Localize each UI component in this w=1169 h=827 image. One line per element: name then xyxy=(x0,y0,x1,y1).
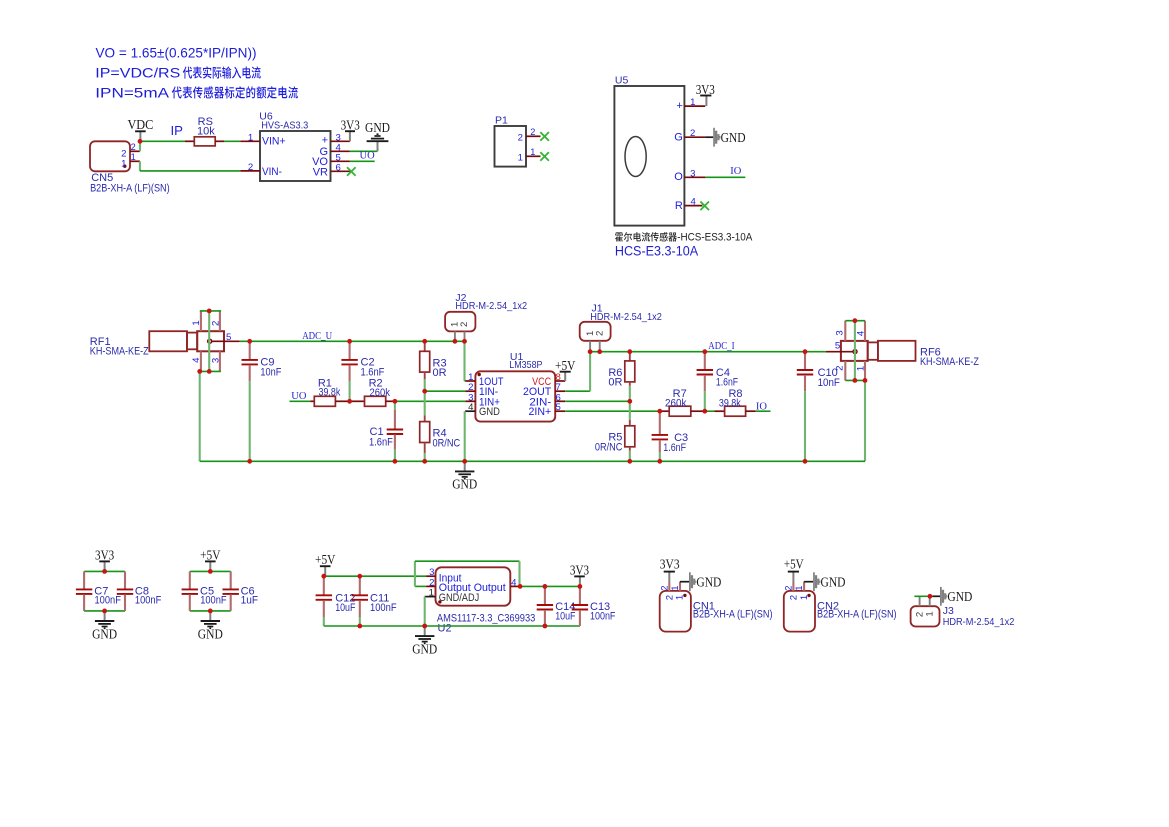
svg-text:GND: GND xyxy=(365,120,390,135)
wire U5 G to GND flag xyxy=(705,136,713,138)
svg-text:4: 4 xyxy=(691,197,697,208)
wire RF1 center vertical xyxy=(208,311,210,372)
resistor R7 260k xyxy=(660,388,705,416)
junction C9 top xyxy=(247,339,252,344)
junction RF1 top xyxy=(207,309,212,314)
capacitor C9 xyxy=(242,341,258,381)
wire RF6 bottom link xyxy=(845,379,865,381)
capacitor C14 xyxy=(537,586,553,626)
svg-text:LM358P: LM358P xyxy=(509,359,542,371)
svg-text:100nF: 100nF xyxy=(135,595,162,607)
svg-text:10nF: 10nF xyxy=(818,377,841,389)
svg-text:2: 2 xyxy=(659,585,669,590)
junction RF6 bottom center xyxy=(853,378,858,383)
resistor R1 39.8k xyxy=(310,377,349,406)
svg-text:GND: GND xyxy=(479,406,500,418)
svg-text:1: 1 xyxy=(429,588,434,599)
svg-text:2: 2 xyxy=(248,162,253,173)
svg-text:IP=VDC/RS: IP=VDC/RS xyxy=(95,66,180,81)
wire node down to R5 xyxy=(629,401,631,420)
junction J2 pin2 xyxy=(462,339,467,344)
junction J1 pin1 xyxy=(588,349,593,354)
capacitors C7 C8 with 3V3 and GND xyxy=(76,547,162,641)
resistor R4 0R/NC xyxy=(420,415,461,453)
svg-text:3V3: 3V3 xyxy=(570,562,590,577)
wire U1 2OUT to J1 xyxy=(565,352,590,392)
label C1 1.6nF xyxy=(369,426,393,449)
wire RF1 down to ground rail xyxy=(199,371,201,461)
junction R5 bottom xyxy=(627,459,632,464)
svg-text:VDC: VDC xyxy=(127,117,153,132)
wire U1 2IN+ row xyxy=(565,410,660,412)
wire regulator bottom rail xyxy=(324,625,580,627)
svg-text:4: 4 xyxy=(511,577,517,588)
resistor R3 0R xyxy=(420,341,447,379)
junction bottom of cap pair at 210.3 xyxy=(208,609,213,614)
junction C11 bottom xyxy=(357,624,362,629)
header J2 HDR-M-2.54_1x2 xyxy=(445,292,527,341)
svg-text:3V3: 3V3 xyxy=(341,118,361,133)
svg-text:GND: GND xyxy=(412,641,437,656)
resistor R2 260k xyxy=(350,378,395,407)
ground GND below U2 xyxy=(412,626,437,656)
svg-text:IO: IO xyxy=(756,401,767,412)
svg-text:2: 2 xyxy=(518,132,523,143)
svg-text:R: R xyxy=(675,200,683,212)
wire U2 out to 3V3 node xyxy=(520,585,580,587)
junction C4 top xyxy=(702,349,707,354)
junction U2 pin4 xyxy=(518,584,523,589)
connector CN2 with +5V and GND xyxy=(784,557,897,632)
svg-text:VO = 1.65±(0.625*IP/IPN)): VO = 1.65±(0.625*IP/IPN)) xyxy=(96,46,257,61)
junction R6 top xyxy=(627,349,632,354)
junction C12 top xyxy=(321,574,326,579)
svg-text:HCS-E3.3-10A: HCS-E3.3-10A xyxy=(615,243,699,259)
power flag +5V at U1 VCC xyxy=(555,358,576,381)
svg-text:ADC_I: ADC_I xyxy=(708,340,735,352)
capacitor C2 xyxy=(341,341,357,381)
svg-text:GND: GND xyxy=(452,477,477,492)
svg-text:J3: J3 xyxy=(943,605,954,617)
no-connect X at U5 pin4 xyxy=(700,202,709,211)
wire U6 G to GND xyxy=(350,150,378,152)
svg-text:O: O xyxy=(674,171,683,183)
net label UO xyxy=(291,391,307,402)
junction C10 top xyxy=(803,349,808,354)
svg-text:39.8k: 39.8k xyxy=(719,397,741,409)
svg-text:100nF: 100nF xyxy=(200,595,227,607)
junction C2 top xyxy=(347,339,352,344)
capacitor C4 xyxy=(697,352,713,391)
net label IO xyxy=(756,401,767,412)
wire C12 to bottom rail xyxy=(323,617,325,626)
wire RF6 top link xyxy=(845,320,865,322)
svg-text:GND/ADJ: GND/ADJ xyxy=(439,592,479,604)
svg-text:1: 1 xyxy=(855,366,866,371)
resistor R6 0R xyxy=(608,352,634,389)
junction U1 GND at rail xyxy=(462,459,467,464)
regulator U2 AMS1117-3.3 xyxy=(425,567,536,634)
svg-text:10uF: 10uF xyxy=(555,610,576,622)
wire RF1 bottom link xyxy=(199,370,221,372)
svg-text:IO: IO xyxy=(730,166,741,177)
junction C10 bottom xyxy=(803,459,808,464)
svg-text:10k: 10k xyxy=(197,126,215,138)
resistor R8 39.8k xyxy=(714,388,755,416)
svg-text:0R: 0R xyxy=(433,367,447,379)
svg-text:1: 1 xyxy=(690,97,695,108)
svg-text:1: 1 xyxy=(670,585,680,590)
ground flag GND at J3 xyxy=(940,587,972,606)
svg-text:3: 3 xyxy=(834,330,845,335)
junction R7-R8 node xyxy=(702,409,707,414)
label C9 10nF xyxy=(260,357,281,379)
wire C9 to rail xyxy=(249,381,251,461)
wire RS to U6 VIN+ xyxy=(224,140,240,142)
capacitor C11 xyxy=(352,576,368,617)
net label IP xyxy=(171,123,184,138)
junction R3-R4 node xyxy=(422,389,427,394)
svg-text:AMS1117-3.3_C369933: AMS1117-3.3_C369933 xyxy=(437,613,535,625)
svg-text:0R: 0R xyxy=(608,376,622,388)
svg-text:HVS-AS3.3: HVS-AS3.3 xyxy=(261,120,308,132)
svg-text:KH-SMA-KE-Z: KH-SMA-KE-Z xyxy=(90,346,149,358)
power flag +5V at regulator xyxy=(315,552,336,576)
svg-text:10uF: 10uF xyxy=(335,602,355,614)
svg-text:IP: IP xyxy=(171,123,184,138)
svg-text:3: 3 xyxy=(690,168,695,179)
power flag VDC xyxy=(127,117,153,141)
wire U2 GND down xyxy=(424,597,426,626)
wire net ADC_I rail xyxy=(590,351,826,353)
wire U6 VO (UO net) xyxy=(350,160,375,162)
svg-text:1.6nF: 1.6nF xyxy=(369,437,393,449)
svg-text:GND: GND xyxy=(721,130,746,145)
svg-text:U2: U2 xyxy=(438,622,452,634)
label C4 1.6nF xyxy=(716,367,738,389)
net label UO at U6 xyxy=(360,150,376,161)
svg-text:2: 2 xyxy=(834,366,845,371)
svg-text:1uF: 1uF xyxy=(241,595,259,607)
junction J3 pin1 xyxy=(928,594,933,599)
wire node to U1 1IN+ xyxy=(395,400,466,402)
net label ADC_U xyxy=(302,330,332,342)
junction C13 top xyxy=(578,584,583,589)
svg-text:5: 5 xyxy=(835,341,840,352)
svg-text:4: 4 xyxy=(191,357,202,363)
junction R3 top xyxy=(422,339,427,344)
IC U6 HVS-AS3.3 xyxy=(240,111,350,182)
RF connector RF6 KH-SMA-KE-Z xyxy=(826,321,979,381)
svg-text:1: 1 xyxy=(530,147,535,157)
wire RF6 down to ground rail xyxy=(864,380,866,461)
wire J3 to GND flag xyxy=(932,595,940,597)
wire R6 to node xyxy=(629,386,631,402)
svg-text:B2B-XH-A (LF)(SN): B2B-XH-A (LF)(SN) xyxy=(90,183,170,195)
junction RF6 bottom pin1 xyxy=(863,378,868,383)
wire node down to R4 xyxy=(424,391,426,415)
wire U1 GND down xyxy=(464,411,466,461)
junction top of cap pair at 210.3 xyxy=(208,569,213,574)
svg-text:VIN-: VIN- xyxy=(262,166,282,178)
wire J2 pin2 down to U1 1OUT xyxy=(463,341,466,381)
svg-text:-HCS-ES3.3-10A: -HCS-ES3.3-10A xyxy=(677,232,753,244)
svg-text:GND: GND xyxy=(92,626,117,641)
wire CN5 pin1 to U6 VIN- xyxy=(140,170,241,172)
svg-text:1: 1 xyxy=(131,152,136,162)
wire node to R8 xyxy=(705,410,715,412)
capacitor C13 xyxy=(572,586,588,626)
svg-text:GND: GND xyxy=(696,574,721,589)
svg-text:+5V: +5V xyxy=(315,552,336,567)
svg-text:1: 1 xyxy=(794,585,804,590)
power flag 3V3 at regulator output xyxy=(570,562,590,586)
svg-text:3V3: 3V3 xyxy=(95,547,115,562)
no-connect X at P1 pin1 xyxy=(540,152,549,161)
no-connect X at P1 pin2 xyxy=(540,132,549,141)
resistor RS 10k xyxy=(185,116,224,146)
wire R8 IO stub xyxy=(756,410,771,412)
capacitor C12 xyxy=(316,576,332,617)
wire net ADC_U rail xyxy=(240,340,465,342)
svg-text:HDR-M-2.54_1x2: HDR-M-2.54_1x2 xyxy=(943,616,1015,628)
wire CN5 pin2 to VDC node xyxy=(139,141,141,151)
svg-text:2: 2 xyxy=(210,321,221,326)
svg-text:IPN=5mA: IPN=5mA xyxy=(95,85,170,100)
capacitors C5 C6 with +5V and GND xyxy=(182,547,259,641)
label C10 10nF xyxy=(818,367,841,389)
wire UO stub xyxy=(290,400,311,402)
capacitor C1 xyxy=(387,410,403,450)
junction RF1 bottom pin4 xyxy=(197,369,202,374)
svg-text:1.6nF: 1.6nF xyxy=(716,377,738,389)
net label ADC_I xyxy=(708,340,735,352)
header J3 HDR-M-2.54_1x2 xyxy=(911,597,1015,629)
wire R3 to node xyxy=(424,379,426,391)
power flag 3V3 at U5 pin1 xyxy=(696,82,716,106)
svg-text:2: 2 xyxy=(459,322,470,327)
svg-text:100nF: 100nF xyxy=(95,595,122,607)
svg-text:+5V: +5V xyxy=(200,547,221,562)
ground GND at U6 pin4 xyxy=(365,120,390,151)
capacitor C10 xyxy=(797,352,813,391)
svg-text:1: 1 xyxy=(121,158,126,169)
junction U2 GND at rail xyxy=(422,624,427,629)
wire ground rail xyxy=(200,460,865,462)
text annotation line 2 xyxy=(95,66,260,81)
junction R2-C1 node xyxy=(393,399,398,404)
svg-text:HDR-M-2.54_1x2: HDR-M-2.54_1x2 xyxy=(590,311,662,323)
svg-text:3: 3 xyxy=(210,358,221,363)
svg-text:GND: GND xyxy=(821,574,846,589)
svg-text:1: 1 xyxy=(248,132,253,143)
svg-text:+: + xyxy=(322,135,328,147)
power flag 3V3 at U6 pin3 xyxy=(341,118,361,142)
svg-text:+5V: +5V xyxy=(784,557,804,572)
svg-text:100nF: 100nF xyxy=(370,602,397,614)
svg-text:G: G xyxy=(674,132,683,144)
junction C9 bottom xyxy=(247,459,252,464)
svg-text:3V3: 3V3 xyxy=(660,557,680,572)
junction R4 bottom xyxy=(422,459,427,464)
svg-text:GND: GND xyxy=(947,589,972,604)
svg-text:3V3: 3V3 xyxy=(696,82,716,97)
svg-text:100nF: 100nF xyxy=(590,610,616,622)
svg-text:ADC_U: ADC_U xyxy=(302,330,332,342)
svg-text:2IN+: 2IN+ xyxy=(529,406,552,418)
IC U5 hall sensor xyxy=(614,75,705,226)
connector CN5 xyxy=(90,141,170,194)
wire J3 pins link xyxy=(914,595,927,597)
svg-text:0R/NC: 0R/NC xyxy=(433,438,461,450)
label C3 1.6nF xyxy=(663,432,688,454)
junction C14 top xyxy=(543,584,548,589)
junction R1-R2-C2 xyxy=(347,399,352,404)
svg-text:10nF: 10nF xyxy=(260,367,281,379)
wire C2 to R1R2 node xyxy=(349,381,351,401)
wire C10 to ground rail xyxy=(804,391,806,461)
ground GND below rail xyxy=(452,461,477,491)
capacitor C3 xyxy=(652,411,668,452)
svg-text:260k: 260k xyxy=(370,387,391,399)
svg-text:HDR-M-2.54_1x2: HDR-M-2.54_1x2 xyxy=(455,300,527,312)
junction RF6 top xyxy=(853,318,858,323)
junction at VDC node xyxy=(138,139,143,144)
RF connector RF1 KH-SMA-KE-Z xyxy=(90,311,240,372)
svg-text:VR: VR xyxy=(313,166,328,178)
svg-text:5: 5 xyxy=(556,402,561,413)
svg-text:1.6nF: 1.6nF xyxy=(663,442,686,454)
svg-text:+: + xyxy=(676,100,682,112)
svg-text:KH-SMA-KE-Z: KH-SMA-KE-Z xyxy=(920,356,979,368)
junction C11 top xyxy=(357,574,362,579)
svg-text:0R/NC: 0R/NC xyxy=(595,442,623,454)
connector CN1 with 3V3 and GND xyxy=(659,557,772,632)
net label IO at U5 xyxy=(730,166,741,177)
label C2 1.6nF xyxy=(361,357,385,379)
text annotation line 3 xyxy=(95,85,298,100)
svg-text:6: 6 xyxy=(336,162,341,173)
label C14 10uF xyxy=(555,601,576,622)
wire C4 to node xyxy=(704,391,706,411)
wire U1 2IN- row xyxy=(565,400,630,402)
ground flag GND at U5 pin2 xyxy=(713,128,745,147)
svg-text:1: 1 xyxy=(924,611,935,616)
wire CN5 pin1 down xyxy=(139,161,141,171)
junction C3 bottom xyxy=(657,459,662,464)
junction RF1 bottom center xyxy=(207,369,212,374)
op-amp U1 LM358P xyxy=(465,351,565,422)
svg-text:GND: GND xyxy=(198,626,223,641)
svg-text:VIN+: VIN+ xyxy=(262,135,286,147)
junction C1 bottom xyxy=(393,459,398,464)
wire U2 output loop xyxy=(415,561,520,586)
wire C3 to ground rail xyxy=(659,452,661,461)
wire node to U1 1IN- xyxy=(425,390,466,392)
wire VDC node to RS xyxy=(140,140,185,142)
label C13 100nF xyxy=(590,601,616,622)
wire C1 to ground rail xyxy=(394,450,396,462)
junction top of cap pair at 104.6 xyxy=(102,569,107,574)
svg-text:2: 2 xyxy=(530,127,535,137)
wire C1 top link xyxy=(394,401,396,410)
svg-text:2: 2 xyxy=(784,585,794,590)
wire +5V rail to U2 input xyxy=(324,575,426,577)
svg-text:1: 1 xyxy=(518,152,523,163)
svg-text:5: 5 xyxy=(226,332,231,343)
svg-text:UO: UO xyxy=(360,150,376,161)
svg-text:+5V: +5V xyxy=(555,358,576,373)
no-connect X at U6 VR xyxy=(347,167,356,176)
wire R5 to ground rail xyxy=(629,451,631,462)
junction J1 pin2 xyxy=(597,349,602,354)
text annotation formula line 1 xyxy=(96,46,257,61)
svg-text:39.8k: 39.8k xyxy=(319,387,341,399)
junction R7-C3 node xyxy=(657,409,662,414)
wire R4 to ground rail xyxy=(424,453,426,461)
svg-text:2: 2 xyxy=(131,142,136,152)
svg-text:P1: P1 xyxy=(495,115,508,127)
svg-text:4: 4 xyxy=(856,330,867,336)
junction C14 bottom xyxy=(543,624,548,629)
svg-text:4: 4 xyxy=(468,402,474,413)
wire C11 to bottom rail xyxy=(359,617,361,626)
svg-text:U5: U5 xyxy=(615,75,629,87)
svg-text:UO: UO xyxy=(291,391,307,402)
junction J2 pin1 xyxy=(453,339,458,344)
svg-text:2: 2 xyxy=(690,128,695,139)
label C12 10uF xyxy=(335,592,355,614)
junction R6-R5 node xyxy=(627,399,632,404)
wire RF1 top link xyxy=(200,310,221,312)
connector P1 xyxy=(495,115,541,167)
svg-text:B2B-XH-A (LF)(SN): B2B-XH-A (LF)(SN) xyxy=(693,609,773,621)
wire U5 O (IO net) xyxy=(705,176,745,178)
text U5 chinese caption xyxy=(615,232,753,244)
resistor R5 0R/NC xyxy=(595,420,635,454)
svg-text:260k: 260k xyxy=(665,397,687,409)
svg-text:1: 1 xyxy=(191,320,202,325)
svg-text:2: 2 xyxy=(594,331,605,336)
wire RF6 center vertical xyxy=(854,321,856,381)
svg-text:B2B-XH-A (LF)(SN): B2B-XH-A (LF)(SN) xyxy=(817,609,897,621)
label C11 100nF xyxy=(370,592,397,614)
text U5 part name HCS-E3.3-10A xyxy=(615,243,699,259)
junction bottom of cap pair at 104.6 xyxy=(102,609,107,614)
header J1 HDR-M-2.54_1x2 xyxy=(580,303,662,352)
